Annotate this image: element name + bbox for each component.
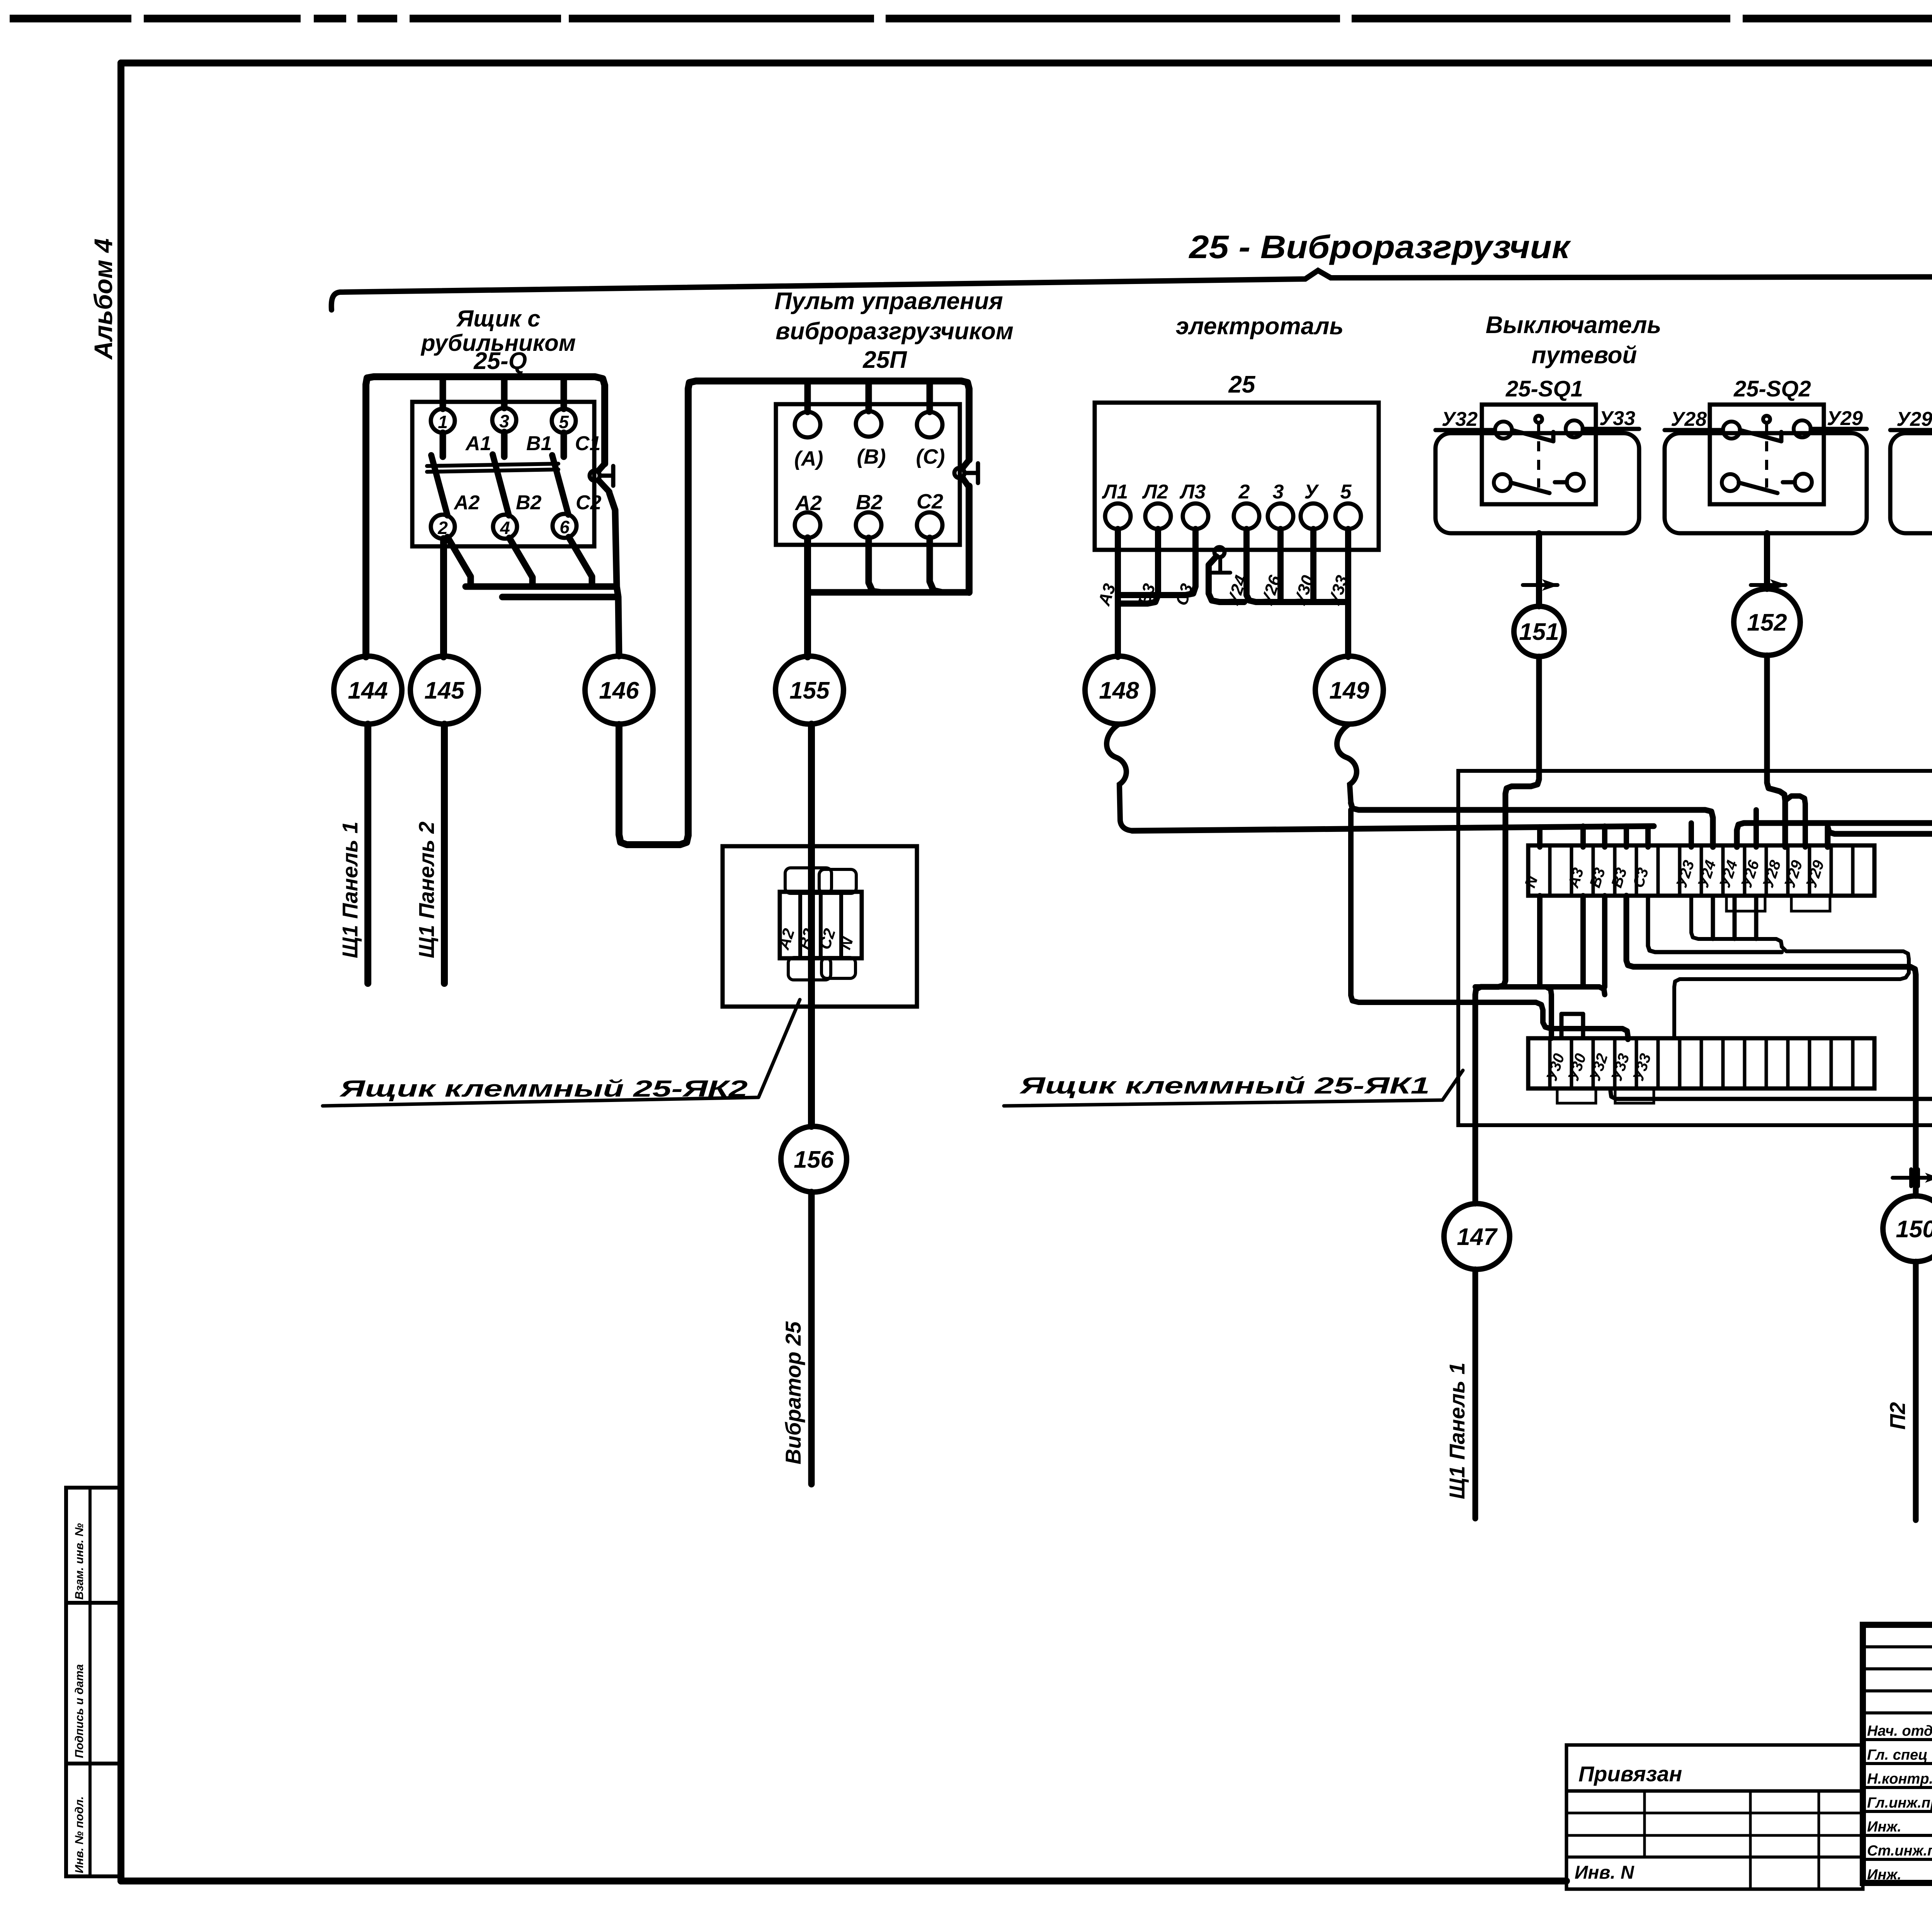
wire cable 148 core line to ЯК1 [1132, 826, 1654, 831]
25-Q pin stems below top pins [443, 432, 564, 457]
wire to cable 150 [1626, 896, 1916, 1196]
svg-text:25 - Виброразгрузчик: 25 - Виброразгрузчик [1188, 229, 1571, 265]
wire cable 152 hooks to У28/У29 terminals [1767, 655, 1805, 847]
hoist pin У [1301, 481, 1326, 529]
svg-text:155: 155 [789, 677, 830, 704]
25П bottom pin A2 [795, 512, 820, 538]
svg-text:3: 3 [499, 411, 509, 431]
wire hoist L3 (core C3) [1120, 529, 1196, 595]
25-SQ2 outer wiring loop [1665, 433, 1867, 533]
terminal box 25-ЯК1 outer [1458, 771, 1932, 1125]
svg-text:5: 5 [559, 412, 569, 432]
wire stubs from 148 line to А3 В3 С3 terminals [1540, 826, 1648, 847]
hoist pin Л3 [1179, 481, 1208, 529]
25П top pin (B) [856, 411, 881, 437]
svg-text:Щ1 Панель 1: Щ1 Панель 1 [1445, 1362, 1469, 1499]
25-SQ2 contact blades [1739, 430, 1795, 493]
squiggle under cable 148 [1107, 724, 1132, 831]
cable circle 144 [334, 656, 402, 724]
25-Q enclosure box [412, 402, 594, 546]
25П right bus wire down [966, 486, 973, 592]
svg-text:3: 3 [1273, 481, 1284, 503]
25-SQ3 outer wiring loop [1890, 433, 1932, 533]
title block responsible persons [1867, 1721, 1932, 1883]
hoist 25 box [1095, 403, 1379, 550]
svg-text:Взам. инв. №: Взам. инв. № [73, 1523, 86, 1600]
svg-text:150: 150 [1896, 1216, 1932, 1243]
brace over whole group [332, 270, 1932, 310]
cable mark arrow on wire 151 [1523, 579, 1559, 591]
25-SQ1 actuator dot and link (dashed) [1535, 416, 1542, 488]
svg-text:Инв. N: Инв. N [1575, 1862, 1634, 1883]
wire cable 156 to vibrator [808, 1192, 815, 1484]
cable circle 145 [410, 656, 478, 724]
svg-text:25П: 25П [862, 347, 907, 373]
svg-text:А2: А2 [453, 492, 480, 514]
svg-text:1: 1 [438, 412, 448, 432]
stubs upper cells 1,3,4 down [1540, 896, 1605, 987]
svg-text:Альбом 4: Альбом 4 [89, 238, 117, 360]
cable mark above 150 [1893, 1169, 1932, 1186]
svg-text:Ст.инж.п: Ст.инж.п [1867, 1843, 1932, 1859]
25-Q bottom pin 6 [553, 514, 577, 538]
svg-text:В2: В2 [516, 492, 542, 514]
wire hoist L1 to cable 148 [1115, 529, 1121, 657]
svg-text:146: 146 [599, 677, 639, 704]
squiggle under cable 149 [1337, 724, 1357, 803]
wire below 150 [1913, 1262, 1919, 1520]
svg-text:Л1: Л1 [1102, 481, 1128, 503]
svg-text:(С): (С) [916, 445, 945, 468]
25-SQ1 pin stubs to loop [1435, 429, 1639, 430]
wire cable 153 to У29 terminal [1828, 655, 1932, 847]
svg-text:(В): (В) [857, 445, 886, 468]
25-Q outgoing bundle wires to cable 146 [447, 493, 619, 656]
svg-text:В1: В1 [526, 432, 552, 455]
svg-text:Инж.: Инж. [1867, 1867, 1901, 1883]
25-SQ1 contact pins [1494, 420, 1584, 491]
left margin stamp column (Инв.№ подл / Подпись и дата / Взам.инв.№) [66, 1488, 120, 1876]
label leader ЯК1 [1004, 1070, 1463, 1106]
wire hoist pin 3 (core У26) [1277, 529, 1284, 600]
svg-text:Н.контр.: Н.контр. [1867, 1771, 1932, 1787]
limit switch 25-SQ2 inner box [1710, 405, 1824, 504]
wire pin2 to cable 145 [440, 539, 447, 657]
ЯК2 terminal strip [780, 892, 862, 958]
wire 25-SQ1 to cable 151 [1536, 533, 1542, 606]
svg-text:Л2: Л2 [1142, 481, 1168, 503]
svg-text:151: 151 [1519, 619, 1559, 645]
svg-text:У32: У32 [1442, 408, 1478, 430]
svg-text:У28: У28 [1671, 408, 1707, 430]
svg-text:путевой: путевой [1532, 342, 1637, 369]
svg-text:Ящик клеммный 25-ЯК2: Ящик клеммный 25-ЯК2 [339, 1076, 748, 1102]
25-Q bottom pin 2 [431, 515, 455, 539]
svg-text:152: 152 [1747, 609, 1787, 636]
ЯК1 upper terminal strip [1528, 845, 1874, 896]
svg-text:Щ1 Панель 1: Щ1 Панель 1 [338, 821, 362, 958]
wire right loop (box C) to lower strip У32 [1611, 772, 1932, 1099]
limit switches title: Выключатель путевой [1486, 312, 1662, 369]
svg-text:(А): (А) [794, 447, 823, 470]
25-Q top pin 3 [492, 408, 516, 432]
svg-text:С1: С1 [575, 432, 600, 455]
25П bottom wires to cable 155 [808, 538, 969, 657]
annex table Привязан [1566, 1745, 1863, 1889]
svg-text:Л3: Л3 [1179, 481, 1206, 503]
svg-text:Нач. отд: Нач. отд [1867, 1723, 1932, 1739]
svg-text:У29: У29 [1827, 407, 1863, 430]
component 25П title: Пульт управления виброразгрузчиком [774, 288, 1014, 373]
svg-text:У33: У33 [1599, 407, 1635, 430]
svg-text:25: 25 [1228, 371, 1256, 398]
svg-text:Выключатель: Выключатель [1486, 312, 1662, 338]
svg-text:25-Q: 25-Q [473, 348, 527, 374]
svg-text:Инв. № подл.: Инв. № подл. [73, 1796, 86, 1873]
svg-text:С2: С2 [917, 490, 943, 513]
hoist pin 3 [1268, 481, 1293, 529]
svg-text:Подпись и дата: Подпись и дата [73, 1664, 86, 1758]
ЯК1 inner wiring nest [1561, 896, 1909, 1038]
cable circle 147 [1444, 1204, 1510, 1269]
25П bottom pin C2 [917, 512, 942, 538]
25-Q bottom pin 4 [493, 515, 517, 539]
hoist core labels А3 В3 С3 У24 У26 У30 У33 [1095, 573, 1352, 608]
svg-text:У29: У29 [1896, 408, 1932, 430]
label leader ЯК2 [323, 1000, 800, 1106]
svg-text:Ящик с: Ящик с [456, 306, 541, 332]
svg-text:Гл.инж.пр: Гл.инж.пр [1867, 1795, 1932, 1811]
ЯК1 lower strip labels [1543, 1051, 1655, 1083]
wire below cable 145 to panel [441, 724, 448, 983]
25-SQ2 actuator dot and link (dashed) [1763, 416, 1770, 488]
title block frame [1863, 1625, 1932, 1883]
ЯК2 terminal tabs above [785, 868, 856, 893]
25-SQ1 outer wiring loop [1435, 433, 1639, 533]
25П top pin (C) [917, 412, 942, 437]
svg-text:Пульт управления: Пульт управления [774, 288, 1003, 315]
limit switch 25-SQ1 inner box [1482, 405, 1596, 504]
wire 25-SQ2 to cable 152 [1764, 533, 1770, 589]
25П top pin (A) [795, 412, 820, 437]
25-SQ2 contact pins [1722, 420, 1812, 491]
wire cable 146 loop to 25П [619, 724, 688, 845]
25П top pin stems [808, 382, 930, 412]
25-SQ1 contact blades [1511, 430, 1567, 493]
paper top edge (torn dashes) [10, 15, 1932, 22]
25-SQ2 pin stubs to loop [1665, 429, 1867, 430]
svg-text:147: 147 [1457, 1224, 1498, 1250]
svg-text:145: 145 [424, 677, 465, 704]
wire cable 151 to N terminal and cable 147 [1475, 656, 1539, 1204]
svg-text:Вибратор 25: Вибратор 25 [781, 1321, 805, 1464]
ЯК2 terminal labels А2 В2 С2 N [774, 926, 857, 952]
cable circle 155 [776, 656, 844, 724]
svg-text:149: 149 [1329, 677, 1369, 704]
25П bottom pin B2 [856, 512, 881, 538]
25-Q mechanical tie bar [427, 464, 558, 472]
cable circle 148 [1085, 656, 1153, 724]
svg-text:Щ1 Панель 2: Щ1 Панель 2 [414, 821, 439, 958]
wire below 147 [1473, 1269, 1478, 1519]
svg-text:электроталь: электроталь [1176, 313, 1344, 340]
svg-text:25-SQ2: 25-SQ2 [1733, 376, 1811, 401]
wire hoist pin У (core У30) [1310, 529, 1316, 600]
cable mark arrow on wire 152 [1751, 579, 1787, 591]
25-Q top bus wire (from cable 144) [366, 377, 605, 657]
ЯК1 lower terminal strip [1528, 1038, 1874, 1088]
svg-text:Ящик клеммный 25-ЯК1: Ящик клеммный 25-ЯК1 [1019, 1073, 1430, 1099]
svg-text:виброразгрузчиком: виброразгрузчиком [776, 318, 1014, 345]
wire hoist pin 5 to cable 149 [1345, 529, 1351, 657]
hoist pin 2 [1234, 481, 1259, 529]
svg-text:144: 144 [348, 677, 388, 704]
wire cable 149 core line (У24) to ЯК1 [1351, 803, 1713, 847]
cable circle 150 [1883, 1196, 1932, 1262]
wire below cable 144 to panel [364, 724, 371, 983]
25-Q top pin 1 [431, 409, 455, 433]
25П enclosure box [776, 404, 960, 545]
wire cable 149 second core down-right [1351, 810, 1628, 1039]
ЯК1 lower strip jumper tabs [1557, 1088, 1654, 1103]
25П handle [954, 460, 978, 486]
svg-text:Гл. спец: Гл. спец [1867, 1747, 1928, 1763]
svg-text:5: 5 [1340, 481, 1352, 503]
hoist pin 5 [1335, 481, 1361, 529]
ЯК2 terminal tabs below [788, 957, 855, 980]
wire hoist PE core [1209, 556, 1244, 602]
cable circle 149 [1315, 656, 1383, 724]
25-SQ3 pin stubs to loop [1890, 429, 1932, 430]
svg-text:П2: П2 [1885, 1402, 1910, 1430]
cable circle 152 [1734, 589, 1800, 655]
hoist pin Л1 [1102, 481, 1131, 529]
svg-text:148: 148 [1099, 677, 1139, 704]
svg-text:У: У [1304, 481, 1319, 503]
terminal box 25-ЯК2 [723, 846, 917, 1007]
wire cable 154 long line to У24/У23 terminals [1691, 655, 1932, 847]
component 25 title: электроталь [1176, 313, 1344, 398]
wire hoist L2 (core B3) [1120, 529, 1158, 604]
cable circle 151 [1514, 606, 1564, 656]
svg-text:А1: А1 [465, 432, 491, 455]
cable circle 156 [781, 1126, 847, 1192]
25-Q top pin stems [443, 378, 564, 409]
wire cable 155 to ЯК2 terminal block and cable 156 [808, 724, 815, 1126]
wire ЯК1 N-group link [1475, 987, 1605, 995]
svg-text:156: 156 [794, 1146, 834, 1173]
svg-text:Инж.: Инж. [1867, 1819, 1901, 1835]
ЯК1 upper strip jumper tabs [1726, 896, 1830, 911]
25-Q handle [590, 464, 613, 492]
svg-text:2: 2 [1238, 481, 1250, 503]
cable circle 146 [585, 656, 653, 724]
svg-text:Привязан: Привязан [1578, 1762, 1682, 1786]
component 25-Q title: Ящик с рубильником [420, 306, 576, 374]
25-Q top pin 5 [552, 409, 576, 433]
hoist PE pin with ground flag [1210, 547, 1230, 573]
25-Q knife blades [431, 454, 568, 515]
wire hoist pin 2 (core У24) [1247, 529, 1348, 602]
title block left grid [1863, 1625, 1932, 1883]
svg-text:С2: С2 [576, 492, 602, 514]
svg-text:25-SQ1: 25-SQ1 [1505, 376, 1583, 401]
ЯК1 upper strip labels [1522, 858, 1828, 890]
25П top bus wire (from cable 146 loop) [688, 381, 969, 835]
hoist pin Л2 [1142, 481, 1171, 529]
